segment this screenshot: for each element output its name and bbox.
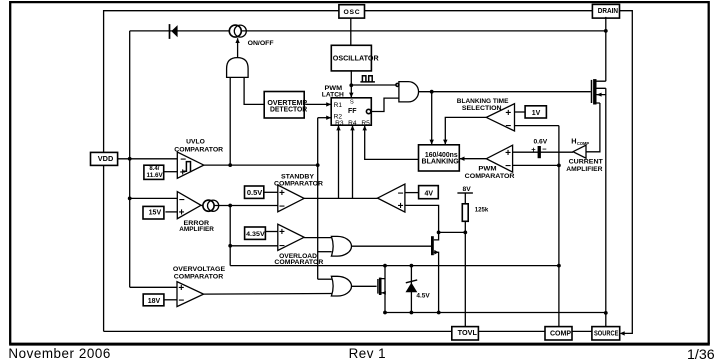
comparator U8 pwm [486, 145, 512, 172]
svg-text:0.5V: 0.5V [247, 190, 263, 197]
node UVLO to AND leg [228, 163, 232, 167]
current source I1 on/off [229, 25, 273, 47]
wire to overload comparator minus [230, 245, 278, 247]
node zener top [410, 264, 414, 268]
label overload comparator [274, 253, 323, 266]
pin box TOVL [452, 327, 479, 340]
node pwm minus comp net [557, 164, 561, 168]
label error amplifier [179, 220, 214, 233]
and gate U1 startup [227, 58, 249, 78]
svg-text:8.4/: 8.4/ [149, 166, 159, 172]
or gate U16 overvoltage [331, 276, 351, 296]
svg-text:+: + [505, 148, 511, 159]
svg-text:4V: 4V [425, 191, 434, 198]
value box 18V [143, 294, 164, 306]
node drain tap on/off rail [604, 29, 608, 33]
wire OR2 output to standby switch gate [352, 285, 377, 287]
wire node row [439, 231, 466, 233]
battery 0.6V offset [531, 139, 547, 159]
svg-text:AMPLIFIER: AMPLIFIER [566, 166, 602, 173]
svg-text:OSCILLATOR: OSCILLATOR [333, 54, 380, 63]
label standby comparator [274, 173, 323, 187]
wire to latch R2 [318, 116, 332, 120]
svg-text:Rev 1: Rev 1 [349, 346, 386, 361]
label blanking time selection [457, 98, 509, 112]
clock pulse symbol [360, 76, 375, 82]
svg-text:COMPARATOR: COMPARATOR [465, 173, 515, 180]
error amplifier U11 [177, 192, 201, 219]
svg-text:11.6V: 11.6V [147, 173, 163, 179]
svg-text:−: − [398, 188, 404, 199]
label overvoltage comparator [173, 266, 226, 280]
wire 1V to selection comparator [515, 111, 526, 113]
comparator U15 overvoltage [177, 282, 204, 307]
wire comp node rail [230, 265, 559, 267]
label UVLO comparator [174, 139, 223, 154]
wire error net vertical [229, 206, 231, 266]
arrow into SOURCE from boundary [620, 331, 625, 335]
svg-text:4.35V: 4.35V [246, 231, 265, 238]
wire startup AND right input from overtemp [244, 77, 264, 104]
svg-text:TOVL: TOVL [458, 328, 478, 337]
svg-text:+: + [178, 283, 184, 294]
node resistor bottom [463, 231, 467, 235]
oscillator U3 [331, 45, 379, 71]
svg-text:−: − [505, 161, 511, 172]
svg-text:SELECTION: SELECTION [462, 105, 502, 112]
wire source ground rail [385, 312, 606, 314]
zener diode Z1 4.5V [406, 266, 431, 313]
wire latch Q to AND input [371, 98, 399, 111]
node bjt collector [437, 231, 441, 235]
svg-text:R3: R3 [335, 120, 344, 127]
svg-text:AMPLIFIER: AMPLIFIER [179, 226, 214, 233]
svg-text:November 2006: November 2006 [8, 346, 110, 361]
value box 8.4/11.6V [144, 165, 164, 179]
svg-text:+: + [398, 201, 404, 212]
wire to latch R3 [336, 125, 340, 198]
and gate U5 output stage [396, 82, 419, 102]
mosfet Q3 standby switch [378, 278, 386, 295]
node error to overload minus [228, 244, 232, 248]
svg-text:125k: 125k [475, 207, 489, 214]
wire standby switch drain branch [384, 266, 386, 313]
svg-text:BLANKING: BLANKING [422, 157, 460, 166]
pin box COMP [545, 327, 572, 340]
svg-text:−: − [178, 295, 184, 306]
svg-text:1/36: 1/36 [687, 347, 715, 362]
wire OR1 output to BJT base [352, 245, 432, 247]
wire error amp minus [130, 197, 178, 199]
node zener bottom [410, 311, 414, 315]
svg-text:R5: R5 [361, 120, 370, 127]
wire threshold box to UVLO plus [164, 171, 177, 173]
svg-text:COMPARATOR: COMPARATOR [174, 273, 224, 280]
value box 0.5V [245, 186, 264, 198]
svg-text:1V: 1V [532, 110, 541, 117]
node switch top [383, 264, 387, 268]
svg-text:+: + [279, 227, 285, 238]
svg-text:CURRENT: CURRENT [569, 159, 604, 166]
current source I2 error output [203, 200, 219, 211]
svg-text:−: − [180, 154, 186, 165]
comparator U12 standby [278, 185, 304, 213]
svg-text:−: − [179, 195, 185, 206]
wire resistor to TOVL [464, 221, 466, 326]
label pwm comparator [465, 166, 515, 180]
blanking box U7 [419, 145, 460, 171]
pin box OSC [339, 5, 365, 18]
wire pwm comparator plus with offset [513, 151, 573, 153]
node switch bottom [383, 311, 387, 315]
node error minus tap [128, 197, 132, 201]
value box 1V [525, 106, 546, 118]
value box 15V [143, 206, 164, 219]
overtemp detector U2 [264, 92, 308, 119]
svg-text:18V: 18V [148, 298, 161, 305]
svg-text:+: + [531, 145, 536, 154]
svg-text:UVLO: UVLO [186, 139, 205, 146]
wire on/off top rail [130, 30, 606, 32]
wire 18V to overvoltage minus [164, 299, 177, 301]
svg-text:PWM: PWM [478, 166, 497, 173]
svg-text:COMPARATOR: COMPARATOR [174, 147, 223, 154]
svg-text:STANDBY: STANDBY [281, 173, 315, 180]
wire gate drive to blanking box [430, 92, 434, 145]
wire selection output to blanking box [443, 117, 486, 144]
wire UVLO output [204, 164, 318, 166]
wire standby and 4V comparator outputs to latch [304, 197, 377, 199]
svg-text:OSC: OSC [343, 9, 360, 16]
label PWM LATCH [322, 85, 344, 99]
svg-text:−: − [542, 145, 547, 154]
wire OSC pin to oscillator [350, 18, 352, 45]
svg-text:COMPARATOR: COMPARATOR [274, 259, 323, 266]
svg-text:+: + [180, 167, 186, 178]
svg-text:S: S [350, 99, 354, 105]
wire 15V to error amp plus [165, 211, 177, 213]
svg-text:0.6V: 0.6V [533, 139, 547, 146]
wire to overload OR lower input [318, 251, 332, 253]
current amplifier U9 [566, 137, 603, 173]
comparator U6 blanking time selection [486, 104, 514, 133]
svg-text:4.5V: 4.5V [416, 292, 430, 299]
svg-text:COMP: COMP [577, 141, 589, 146]
wire startup AND output to current source [235, 38, 239, 58]
wire overvoltage output to OR [204, 293, 332, 296]
wire error amp output [201, 205, 278, 207]
wire overload output to OR [304, 237, 332, 239]
wire pwm comparator output to blanking [460, 157, 487, 161]
svg-text:−: − [279, 202, 285, 213]
node comp rail end [557, 264, 561, 268]
pwm latch FF U4 [331, 98, 371, 127]
comparator U17 4V [378, 184, 405, 212]
svg-text:+: + [505, 108, 511, 119]
svg-text:DETECTOR: DETECTOR [270, 105, 308, 114]
svg-text:OVERVOLTAGE: OVERVOLTAGE [173, 266, 226, 273]
wire VDD startup rail vertical [129, 31, 131, 287]
wire overvoltage plus input [130, 286, 177, 288]
node gate drive to blanking [430, 90, 434, 94]
svg-text:DRAIN: DRAIN [598, 6, 618, 15]
wire 0.5V to standby plus [264, 191, 278, 193]
wire UVLO net vertical [317, 118, 319, 280]
transistor Q2 overload BJT [432, 232, 438, 312]
svg-text:+: + [179, 207, 185, 218]
IC internal boundary [104, 11, 633, 334]
wire mosfet body to source rail [605, 88, 607, 326]
wire comp pin vertical [558, 126, 560, 327]
pin box SOURCE [592, 327, 620, 340]
value box 4.35V [245, 227, 266, 239]
or gate U14 overload [331, 236, 351, 256]
svg-text:COMP: COMP [550, 328, 571, 337]
resistor R1 125k [462, 193, 488, 221]
node source rail join [604, 311, 608, 315]
svg-text:H: H [571, 137, 576, 146]
node bjt emitter rail [437, 311, 441, 315]
comparator U10 UVLO [177, 152, 204, 178]
svg-text:LATCH: LATCH [322, 91, 344, 98]
svg-text:−: − [505, 121, 511, 132]
pin box VDD [91, 152, 118, 165]
node UVLO to latch net [316, 163, 320, 167]
pin box DRAIN [592, 4, 619, 18]
svg-text:8V: 8V [463, 186, 472, 193]
comparator U13 overload [278, 224, 304, 252]
wire to latch R4 [350, 125, 354, 198]
svg-text:R1: R1 [334, 102, 343, 109]
svg-text:+: + [279, 188, 285, 199]
node S branch to AND [349, 83, 353, 87]
wire blanking to latch R5 [363, 125, 419, 159]
diode D1 [170, 24, 178, 39]
wire 4.35V to overload plus [265, 231, 277, 233]
wire to overvoltage OR upper input [318, 278, 332, 280]
wire drain vertical [605, 17, 607, 81]
svg-text:SOURCE: SOURCE [594, 328, 619, 337]
wire latch clock to AND inverted input [351, 84, 396, 86]
svg-text:VDD: VDD [98, 154, 114, 163]
wire AND output gate drive [419, 91, 591, 93]
mosfet Q1 power [592, 79, 606, 104]
svg-text:ON/OFF: ON/OFF [248, 40, 274, 47]
wire VDD to UVLO minus [118, 158, 178, 160]
svg-text:FF: FF [348, 108, 357, 115]
supply rail 8V [457, 186, 473, 193]
wire pwm comparator minus [513, 164, 559, 166]
wire 4V comparator plus to node [405, 205, 439, 232]
svg-text:15V: 15V [149, 209, 162, 216]
wire current amp input from source sense [586, 103, 600, 152]
value box 4V [419, 186, 439, 199]
wire selection comparator minus to comp net [515, 125, 559, 127]
wire oscillator to latch S input [349, 70, 353, 97]
svg-text:−: − [279, 241, 285, 252]
wire 4V box to comparator minus [405, 192, 419, 194]
wire overtemp to latch R1 [305, 102, 331, 106]
node error output branch [228, 204, 232, 208]
wire startup AND left input from UVLO [229, 77, 231, 165]
node VDD rail tap [128, 157, 132, 161]
